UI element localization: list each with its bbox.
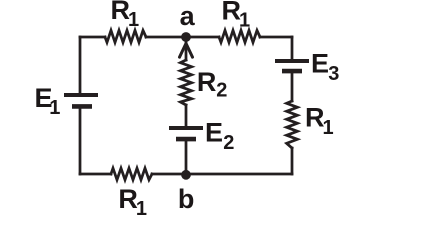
svg-text:a: a	[180, 1, 196, 31]
svg-text:1: 1	[239, 9, 250, 31]
svg-text:1: 1	[49, 97, 60, 119]
svg-text:b: b	[178, 184, 195, 214]
svg-text:E: E	[205, 117, 223, 147]
svg-text:2: 2	[223, 132, 234, 154]
svg-text:1: 1	[136, 198, 147, 220]
svg-text:3: 3	[328, 63, 339, 85]
svg-text:1: 1	[128, 9, 139, 31]
svg-text:2: 2	[216, 80, 227, 102]
svg-text:R: R	[197, 67, 217, 97]
svg-text:E: E	[311, 49, 329, 79]
svg-text:1: 1	[323, 117, 334, 139]
